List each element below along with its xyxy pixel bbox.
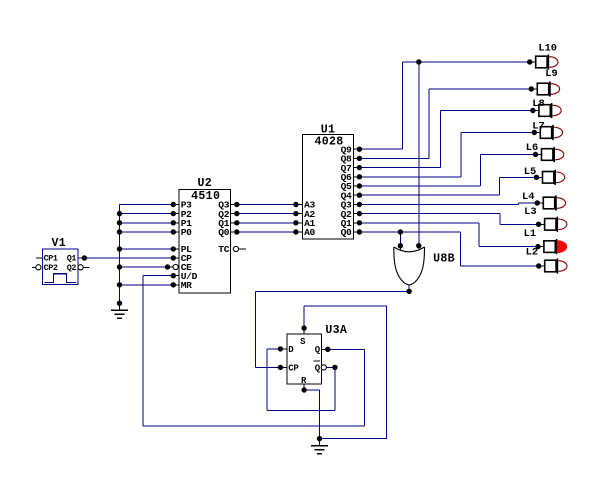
svg-text:Q: Q bbox=[315, 364, 321, 374]
svg-text:U8B: U8B bbox=[433, 252, 455, 265]
svg-text:Q2: Q2 bbox=[67, 263, 77, 273]
svg-text:A0: A0 bbox=[304, 227, 315, 238]
svg-text:4028: 4028 bbox=[314, 136, 343, 149]
svg-text:L2: L2 bbox=[526, 246, 538, 258]
svg-text:U2: U2 bbox=[197, 177, 212, 190]
svg-text:Q0: Q0 bbox=[341, 227, 352, 238]
svg-text:L4: L4 bbox=[522, 191, 534, 203]
svg-text:L8: L8 bbox=[532, 98, 544, 110]
svg-text:L9: L9 bbox=[545, 68, 557, 80]
svg-text:P0: P0 bbox=[181, 227, 192, 238]
svg-text:TC: TC bbox=[218, 244, 229, 255]
svg-text:L5: L5 bbox=[524, 166, 536, 178]
svg-text:V1: V1 bbox=[51, 237, 66, 250]
svg-text:L1: L1 bbox=[524, 228, 536, 240]
svg-text:D: D bbox=[288, 345, 294, 355]
svg-text:MR: MR bbox=[181, 280, 192, 291]
svg-text:L3: L3 bbox=[524, 206, 536, 218]
svg-text:R: R bbox=[301, 376, 307, 386]
svg-text:L6: L6 bbox=[526, 142, 538, 154]
svg-text:S: S bbox=[300, 337, 306, 347]
svg-text:Q0: Q0 bbox=[218, 227, 229, 238]
svg-text:CP2: CP2 bbox=[44, 263, 58, 273]
svg-text:Q: Q bbox=[315, 345, 321, 355]
svg-text:CP: CP bbox=[288, 364, 299, 374]
svg-text:L10: L10 bbox=[538, 43, 557, 55]
svg-text:U3A: U3A bbox=[325, 324, 347, 337]
svg-text:L7: L7 bbox=[532, 121, 544, 133]
svg-text:4510: 4510 bbox=[191, 190, 220, 203]
